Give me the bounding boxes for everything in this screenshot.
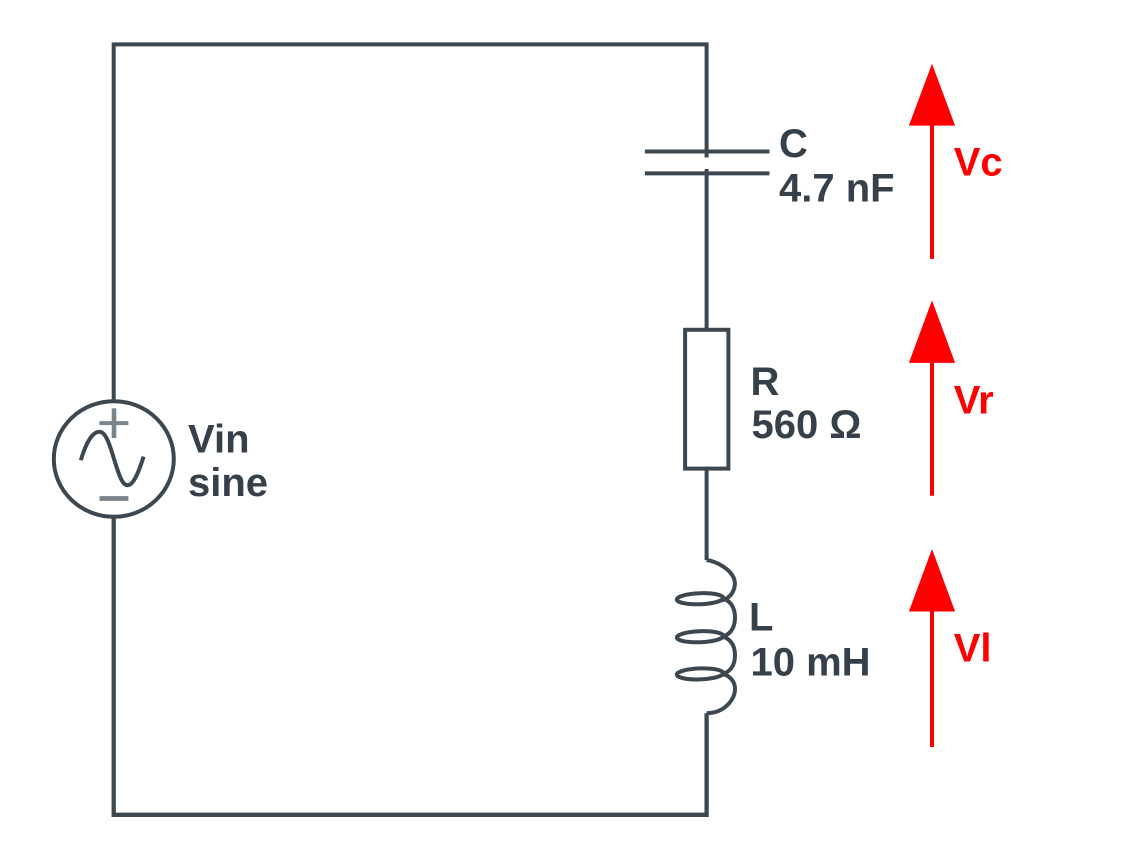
svg-text:Vc: Vc	[954, 141, 1003, 185]
svg-text:Vin: Vin	[188, 418, 250, 462]
svg-text:4.7 nF: 4.7 nF	[779, 167, 895, 211]
svg-text:sine: sine	[188, 461, 268, 505]
svg-text:10 mH: 10 mH	[751, 641, 871, 685]
svg-text:Vl: Vl	[954, 627, 992, 671]
svg-text:560 Ω: 560 Ω	[752, 403, 862, 447]
svg-text:R: R	[751, 360, 780, 404]
svg-text:Vr: Vr	[954, 379, 994, 423]
svg-text:L: L	[749, 596, 773, 640]
svg-text:C: C	[779, 122, 808, 166]
